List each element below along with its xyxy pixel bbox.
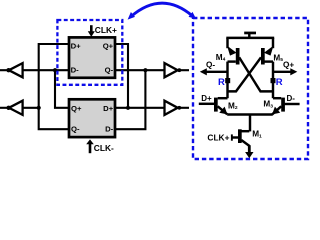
- buffer A3 (right top, points right): [165, 63, 190, 77]
- node junction dot on D- line: [53, 68, 57, 72]
- buffer A4 (right bottom, points right): [165, 101, 190, 115]
- svg-text:D+: D+: [201, 94, 212, 103]
- transistor M4 (cross-coupled left): [216, 38, 273, 92]
- svg-text:Q-: Q-: [105, 66, 114, 75]
- transistor M5 (cross-coupled right): [228, 38, 284, 92]
- wire feedback master D+ to slave Q-: [39, 44, 69, 129]
- wire feedback master D- to slave Q+: [55, 70, 69, 108]
- node junction dot Q- line: [143, 68, 147, 72]
- svg-text:R: R: [218, 77, 225, 88]
- common source wire: [227, 113, 273, 115]
- node junction dot Q+/D+: [126, 106, 130, 110]
- wire output line left bottom: [0, 107, 9, 109]
- blue zoom curved arrow: [128, 3, 196, 19]
- buffer A2 (left bottom, points left): [6, 101, 22, 115]
- buffer A1 (left top, points left): [6, 63, 22, 77]
- svg-text:CLK+: CLK+: [207, 132, 229, 142]
- svg-text:D+: D+: [103, 104, 114, 113]
- svg-text:Q-: Q-: [71, 125, 80, 134]
- dashed detail box (right schematic): [193, 18, 308, 159]
- transistor M2 (input pair left): [199, 94, 238, 114]
- svg-text:CLK-: CLK-: [94, 143, 114, 153]
- svg-text:D+: D+: [71, 42, 82, 51]
- dashed zoom box around master latch: [57, 20, 122, 85]
- wire slave D+ row to buffer A4: [115, 107, 165, 109]
- wire master Q+ to slave D+: [115, 44, 128, 108]
- svg-text:D-: D-: [287, 94, 296, 103]
- CLK- arrow into slave latch: [86, 139, 114, 153]
- CLK+ arrow into master latch: [88, 25, 117, 37]
- svg-text:M4: M4: [216, 53, 226, 63]
- tail current down arrow: [245, 145, 253, 158]
- Q- output arrow: [200, 60, 228, 75]
- svg-text:M1: M1: [252, 130, 262, 140]
- wire buffer A1 to master D-: [23, 69, 69, 71]
- latch box master: [69, 37, 115, 77]
- svg-text:D-: D-: [105, 125, 114, 134]
- svg-text:R: R: [276, 77, 283, 88]
- node rail right: [272, 62, 274, 99]
- tail drop wire: [249, 115, 251, 132]
- node R right (square dot + label): [271, 77, 283, 88]
- svg-text:M3: M3: [263, 100, 273, 110]
- wire master Q- to slave D-: [115, 70, 145, 129]
- svg-text:CLK+: CLK+: [95, 25, 117, 35]
- svg-text:Q+: Q+: [71, 104, 82, 113]
- node junction dot A2 line: [37, 106, 41, 110]
- wire buffer A2 to feedback node: [23, 107, 39, 109]
- wire master Q- to buffer A3: [115, 69, 165, 71]
- latch box slave: [69, 99, 115, 137]
- svg-text:Q+: Q+: [103, 42, 114, 51]
- svg-text:Q+: Q+: [283, 61, 294, 70]
- svg-text:Q-: Q-: [206, 60, 215, 69]
- node rail left: [226, 62, 228, 99]
- svg-text:D-: D-: [71, 66, 80, 75]
- node R left (square dot + label): [218, 77, 230, 88]
- VDD rail wire: [226, 37, 274, 40]
- transistor M3 (input pair right): [263, 94, 299, 114]
- supply symbol: [244, 32, 256, 39]
- wire output line left top: [0, 69, 9, 71]
- transistor M1 (tail): [207, 129, 262, 146]
- Q+ output arrow: [273, 61, 297, 76]
- svg-text:M5: M5: [273, 53, 283, 63]
- svg-text:M2: M2: [228, 102, 238, 112]
